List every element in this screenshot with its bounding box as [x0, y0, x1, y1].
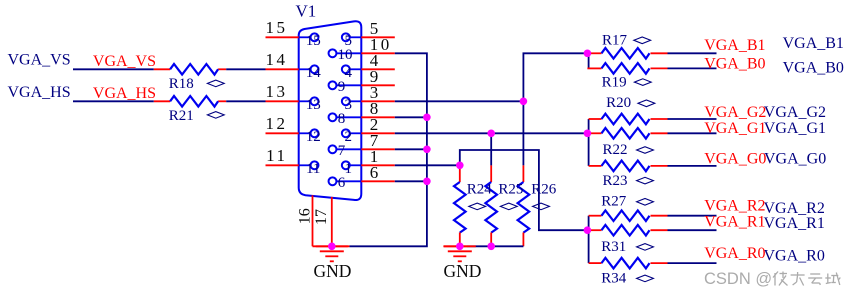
svg-text:6: 6 [370, 163, 381, 182]
svg-text:14: 14 [266, 50, 288, 69]
svg-text:VGA_HS: VGA_HS [93, 85, 156, 102]
svg-text:R31: R31 [601, 239, 626, 255]
svg-text:R21: R21 [169, 108, 194, 124]
svg-text:13: 13 [306, 97, 321, 113]
svg-text:17: 17 [313, 209, 330, 225]
svg-text:VGA_VS: VGA_VS [93, 53, 156, 70]
svg-text:R22: R22 [603, 142, 628, 158]
svg-text:12: 12 [266, 114, 288, 133]
svg-text:R19: R19 [602, 75, 627, 91]
svg-text:R17: R17 [602, 33, 628, 49]
svg-text:R24: R24 [467, 182, 493, 198]
svg-text:7: 7 [338, 143, 346, 159]
svg-text:VGA_G1: VGA_G1 [764, 120, 826, 137]
svg-text:VGA_R1: VGA_R1 [764, 215, 825, 232]
svg-text:VGA_B0: VGA_B0 [783, 60, 844, 77]
svg-text:VGA_HS: VGA_HS [8, 84, 71, 101]
svg-text:15: 15 [306, 33, 321, 49]
svg-text:GND: GND [444, 261, 482, 281]
svg-text:R20: R20 [606, 95, 631, 111]
svg-text:11: 11 [266, 146, 287, 165]
svg-text:VGA_G2: VGA_G2 [704, 104, 766, 121]
svg-text:11: 11 [306, 161, 320, 177]
svg-text:4: 4 [344, 65, 352, 81]
svg-text:VGA_B1: VGA_B1 [704, 37, 765, 54]
svg-text:VGA_R0: VGA_R0 [704, 245, 765, 262]
svg-text:1: 1 [344, 161, 352, 177]
svg-text:GND: GND [314, 261, 352, 281]
svg-text:15: 15 [266, 18, 288, 37]
svg-text:3: 3 [344, 97, 352, 113]
svg-text:VGA_VS: VGA_VS [8, 52, 71, 69]
svg-text:2: 2 [344, 129, 352, 145]
svg-text:8: 8 [338, 111, 346, 127]
svg-text:14: 14 [306, 65, 322, 81]
svg-text:12: 12 [306, 129, 321, 145]
svg-text:VGA_B1: VGA_B1 [783, 35, 844, 52]
svg-text:CSDN @: CSDN @ [704, 270, 772, 288]
svg-text:VGA_R0: VGA_R0 [764, 248, 825, 265]
svg-text:R26: R26 [531, 182, 557, 198]
svg-text:13: 13 [266, 82, 288, 101]
svg-text:10: 10 [338, 47, 353, 63]
svg-text:VGA_G2: VGA_G2 [764, 104, 826, 121]
svg-text:VGA_R1: VGA_R1 [704, 213, 765, 230]
svg-text:R34: R34 [601, 270, 627, 286]
svg-text:VGA_G1: VGA_G1 [704, 120, 766, 137]
svg-text:R27: R27 [601, 194, 627, 210]
svg-text:R23: R23 [603, 173, 628, 189]
svg-text:VGA_G0: VGA_G0 [764, 150, 826, 167]
svg-text:VGA_B0: VGA_B0 [704, 55, 765, 72]
svg-text:R18: R18 [169, 76, 194, 92]
svg-text:V1: V1 [296, 2, 317, 21]
svg-text:9: 9 [338, 79, 346, 95]
svg-text:16: 16 [297, 208, 314, 224]
svg-text:6: 6 [338, 175, 346, 191]
svg-text:R25: R25 [498, 182, 523, 198]
svg-text:VGA_R2: VGA_R2 [704, 197, 765, 214]
svg-text:VGA_G0: VGA_G0 [704, 151, 766, 168]
